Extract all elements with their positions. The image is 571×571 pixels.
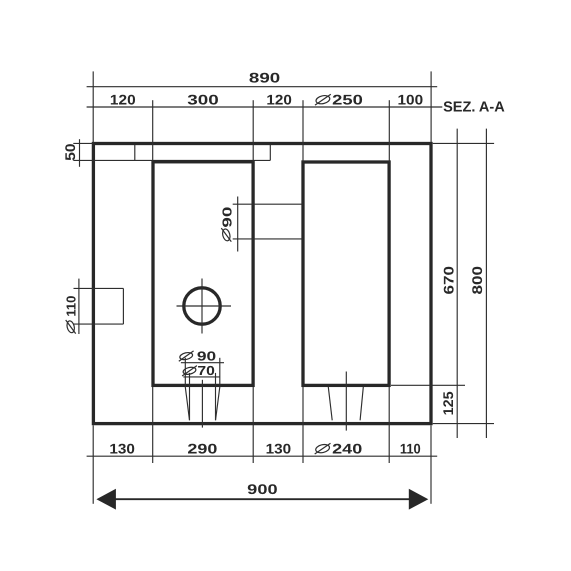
right ext chamber-bottom xyxy=(391,384,465,386)
dim 50 ext top xyxy=(73,142,93,144)
ext line chamber2 right bottom xyxy=(388,387,390,463)
circle centerline horizontal xyxy=(177,305,232,307)
lid joint left xyxy=(134,145,136,160)
overall width 900 arrow shaft xyxy=(113,498,411,500)
dim 800 label xyxy=(469,266,485,295)
d110 label xyxy=(64,296,79,334)
d90 drain label xyxy=(179,351,194,361)
900 left arrowhead xyxy=(96,489,116,510)
ext line chamber1 right top xyxy=(252,100,254,162)
dim 670 label xyxy=(440,266,456,295)
bottom dimension row line xyxy=(87,455,438,457)
svg-text:300: 300 xyxy=(187,92,219,108)
svg-text:100: 100 xyxy=(398,92,424,108)
passage hole d90 edge bottom xyxy=(233,238,303,240)
passage hole d90 edge top xyxy=(233,203,303,205)
lid joint right xyxy=(269,145,271,160)
900 right arrowhead xyxy=(409,489,429,510)
circle centerline vertical xyxy=(201,279,203,334)
drain left d90 dim line xyxy=(181,362,224,364)
lid underside line xyxy=(73,159,270,161)
dim d250 symbol xyxy=(315,94,331,105)
main outline xyxy=(93,144,431,424)
drain right cone side right xyxy=(360,387,363,420)
drain left d70 ext right xyxy=(215,373,217,420)
d70 drain label xyxy=(182,366,197,376)
svg-text:125: 125 xyxy=(440,391,456,415)
ext line left outer bottom xyxy=(92,425,94,504)
d110 dimension line xyxy=(78,279,80,334)
svg-text:90: 90 xyxy=(197,348,216,363)
svg-text:290: 290 xyxy=(187,440,217,456)
d110 port bottom line xyxy=(74,323,124,325)
circle port in left chamber xyxy=(184,288,220,324)
svg-text:90: 90 xyxy=(219,207,234,228)
svg-text:110: 110 xyxy=(400,440,421,456)
d110 port right edge xyxy=(122,288,124,324)
svg-text:670: 670 xyxy=(440,266,456,295)
drain left centerline xyxy=(201,380,203,428)
ext line chamber1 left bottom xyxy=(152,387,154,463)
right ext top xyxy=(433,142,494,144)
right dim line 670-125 xyxy=(456,129,458,438)
svg-text:800: 800 xyxy=(469,266,485,295)
ext line chamber1 left top xyxy=(152,100,154,162)
ext line chamber2 left bottom xyxy=(302,387,304,463)
drain left cone side left xyxy=(185,387,189,420)
ext line left outer top xyxy=(92,71,94,143)
svg-text:110: 110 xyxy=(64,296,79,317)
right chamber xyxy=(303,162,389,385)
svg-text:240: 240 xyxy=(332,440,362,456)
drain left d70 ext left xyxy=(189,373,191,420)
svg-text:250: 250 xyxy=(332,92,363,108)
svg-text:SEZ. A-A: SEZ. A-A xyxy=(443,100,505,116)
right ext bottom xyxy=(433,423,494,425)
svg-text:890: 890 xyxy=(249,70,281,86)
ext line right outer bottom xyxy=(430,425,432,504)
dim 125 label xyxy=(440,391,456,415)
svg-text:900: 900 xyxy=(247,481,278,497)
d110 port top line xyxy=(74,287,124,289)
svg-text:120: 120 xyxy=(110,92,136,108)
dim d240 symbol xyxy=(315,443,331,454)
drain right centerline xyxy=(345,372,347,431)
top row2 dimension line xyxy=(87,106,443,108)
drain left d70 dim line xyxy=(183,376,219,378)
top row1 dimension line 890 xyxy=(87,86,438,88)
right dim line 800 xyxy=(485,129,487,438)
dim 50 line xyxy=(79,139,81,167)
ext line right outer top xyxy=(430,71,432,143)
left chamber xyxy=(153,162,253,386)
svg-text:70: 70 xyxy=(197,363,215,378)
ext line chamber2 left top xyxy=(302,100,304,162)
svg-text:50: 50 xyxy=(62,143,78,161)
ext line chamber1 right bottom xyxy=(252,387,254,463)
svg-text:130: 130 xyxy=(266,440,292,456)
svg-text:120: 120 xyxy=(266,92,292,108)
passage d90 label xyxy=(219,207,234,242)
dim 50 label xyxy=(62,143,78,161)
passage d90 dimension line xyxy=(237,197,239,252)
drain left d90 ext left xyxy=(184,358,186,387)
drain left cone side right xyxy=(216,387,220,420)
ext line chamber2 right top xyxy=(388,100,390,162)
drain left d90 ext right xyxy=(219,358,221,387)
drain right cone side left xyxy=(328,387,332,420)
svg-text:130: 130 xyxy=(109,440,135,456)
